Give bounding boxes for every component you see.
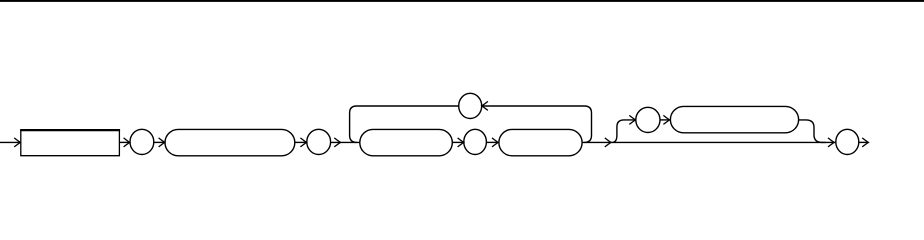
wire S3 bypass line to C5 <box>582 141 835 143</box>
branch up-curve to option <box>612 120 635 142</box>
stadium S1 <box>165 129 295 155</box>
arrowhead before C2 <box>300 138 306 147</box>
circle C1 <box>130 129 154 154</box>
wire C3 to S3 <box>486 141 498 143</box>
arrowhead before S4 <box>663 115 669 124</box>
branch down-curve from option <box>799 120 826 142</box>
wire exit line <box>859 141 868 143</box>
arrowhead mid after C2 <box>334 138 340 147</box>
box B1 thick top edge <box>20 129 120 131</box>
stadium S2 <box>360 129 453 155</box>
wire S1 to C2 <box>295 141 306 143</box>
circle C5 <box>836 129 859 154</box>
arrowhead entry <box>14 138 20 147</box>
wire S2 to C3 <box>452 141 463 143</box>
circle C6 on loop <box>459 93 482 118</box>
circle C3 <box>464 129 487 154</box>
arrowhead before C3 <box>458 138 464 147</box>
arrowhead on loop pointing left <box>482 101 488 110</box>
wire C4 to S4 <box>660 119 669 121</box>
arrowhead exit <box>862 138 868 147</box>
arrowhead before S1 <box>159 138 165 147</box>
arrowhead before S3 <box>492 138 498 147</box>
wire entry line <box>0 141 20 143</box>
wire C1 to S1 <box>154 141 165 143</box>
top horizontal rule <box>0 0 924 2</box>
circle C4 <box>636 107 660 132</box>
circle C2 <box>307 129 331 154</box>
box B1 rectangle sides and bottom <box>21 130 120 156</box>
arrowhead before C5 <box>828 138 834 147</box>
loop return path <box>350 106 592 142</box>
stadium S4 <box>670 106 798 132</box>
arrowhead before C4 <box>629 115 635 124</box>
wire B1 to C1 <box>120 141 130 143</box>
arrowhead before C1 <box>124 138 130 147</box>
arrowhead mid after S3 <box>605 138 611 147</box>
wire C2 to S2 with loop merge <box>331 141 360 143</box>
stadium S3 <box>499 129 582 155</box>
